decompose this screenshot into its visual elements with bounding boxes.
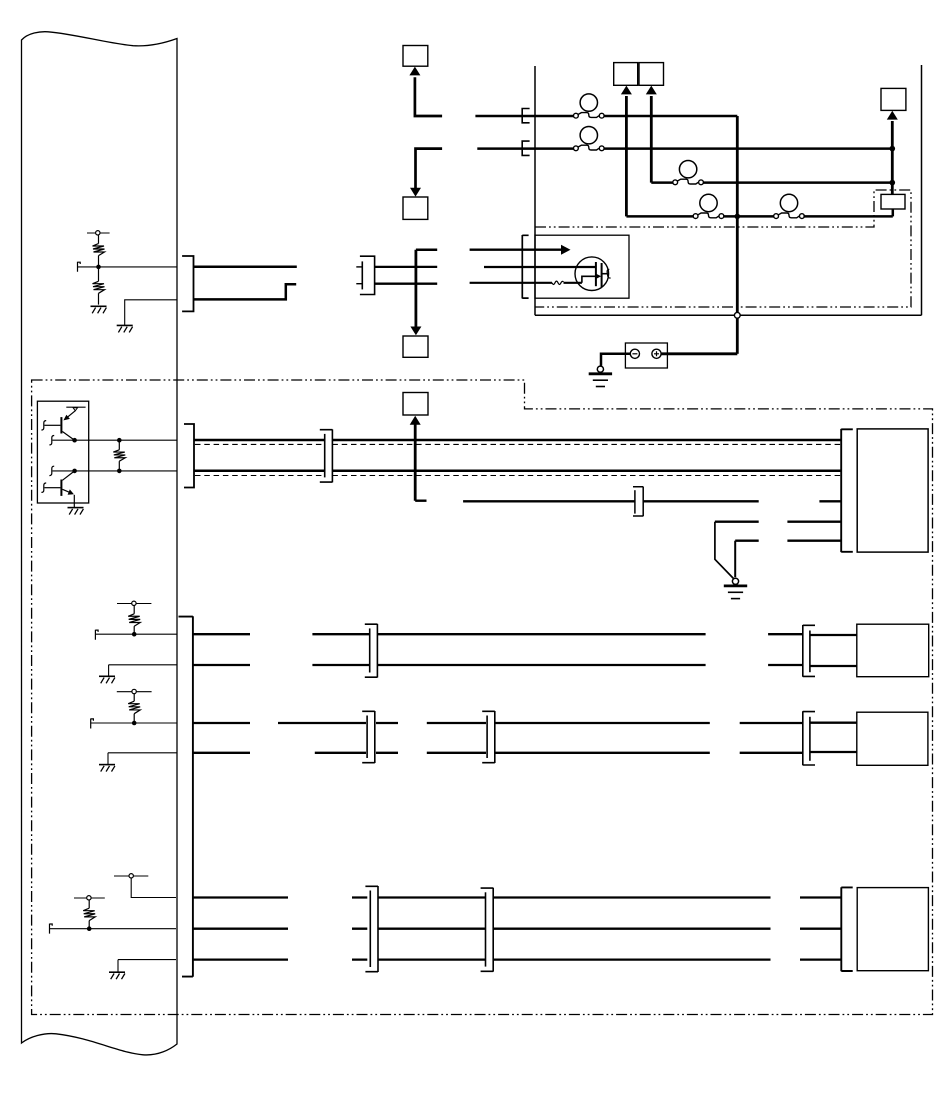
terminal fuse row2: [522, 141, 529, 155]
box B11 (actuator): [857, 888, 928, 971]
node row4 junction: [735, 214, 741, 220]
ground G1: [91, 306, 107, 313]
wire stub C2 pin1: [356, 266, 362, 268]
wire signal B (stepped): [194, 284, 297, 299]
wire pair1 solid: [194, 439, 841, 442]
connector C13: [481, 888, 494, 972]
wire W4: [715, 521, 841, 523]
node R3 top: [117, 438, 122, 443]
wire out B: [52, 470, 177, 472]
terminal Q1 base: [41, 421, 46, 430]
node Q1 out: [72, 438, 77, 443]
ground G3: [68, 508, 84, 515]
connector C2 frame: [360, 256, 375, 294]
wire W3 seg1: [463, 500, 634, 502]
wire row1 return thin: [109, 665, 177, 676]
ECU body band (torn-edge): [22, 32, 178, 1055]
arrow into B5: [646, 86, 657, 95]
terminal row1 signal: [95, 630, 98, 640]
wire row1b tail: [810, 665, 857, 667]
box B1 (to other page): [403, 46, 428, 67]
wire out A: [52, 439, 177, 441]
solid state relay box: [535, 235, 629, 298]
fuse box outline: [535, 65, 922, 315]
wire B4 feed vertical: [625, 96, 628, 216]
wire B to junction: [375, 283, 438, 285]
wire row3b: [192, 928, 841, 930]
wire sensor ground: [125, 300, 177, 325]
arrow into B1: [409, 67, 420, 76]
wire B7 vertical: [414, 425, 417, 501]
wire row2b tail: [810, 751, 857, 753]
connector C11: [803, 711, 815, 765]
ground G6: [99, 765, 115, 772]
driver box: [37, 401, 88, 503]
transistor Q2 (NPN): [45, 471, 75, 496]
wire row2 right: [604, 147, 892, 150]
ground G4: [724, 578, 747, 598]
wire pair2 solid: [194, 470, 841, 473]
wire main feed vertical: [414, 250, 417, 327]
arrow relay feed: [561, 245, 571, 255]
connector C8: [803, 625, 815, 677]
transistor Q1 (PNP): [45, 407, 86, 440]
wire W3 seg3: [819, 500, 841, 502]
relay element K1: [881, 194, 905, 209]
connector C101 bracket: [182, 256, 193, 311]
fuse F5: [774, 194, 805, 218]
wire row3c: [192, 958, 841, 960]
wire feed resume: [470, 249, 523, 251]
wire row1a: [193, 633, 803, 635]
connector C102 bracket: [184, 424, 194, 488]
wire row4 mid: [724, 215, 775, 218]
wire battery positive: [661, 352, 737, 355]
wire B2 vertical: [416, 149, 443, 189]
wire row2a tail: [810, 722, 857, 724]
wire row4 left: [626, 215, 693, 218]
power terminal row3: [114, 874, 148, 878]
connector C4: [320, 429, 333, 482]
connector C14 bracket: [841, 887, 852, 971]
box B4: [614, 63, 638, 86]
fuse F1: [574, 94, 605, 118]
wire row2 left: [477, 147, 573, 150]
wire row2b: [193, 752, 803, 754]
wire row2 return thin: [108, 753, 177, 764]
squiggle source: [552, 281, 564, 284]
ground battery: [589, 366, 612, 386]
wire relay gate: [522, 266, 596, 268]
harness enclosure (dash-dot boundary): [32, 380, 933, 1015]
box B2 (to other page): [403, 197, 428, 219]
node divider junction: [96, 265, 101, 270]
resistor R4: [128, 606, 140, 635]
terminal Q2 base: [41, 483, 46, 492]
wire row1 drop vertical: [736, 116, 739, 312]
connector C6 bracket: [841, 429, 853, 552]
wire row3 right: [703, 181, 892, 184]
wire A to junction: [375, 266, 438, 268]
wire row3: [651, 181, 673, 184]
box B6: [881, 88, 906, 110]
wire row1 signal thin: [95, 633, 177, 635]
node R3 bottom: [117, 469, 122, 474]
fuse F4: [693, 194, 724, 218]
wire pair2 shield dashed: [195, 475, 841, 477]
wire signal A: [194, 266, 297, 269]
node R4: [132, 632, 137, 637]
box B8 (control unit): [857, 429, 928, 552]
arrow into B6: [887, 111, 898, 120]
wire B5 feed vertical: [650, 96, 653, 183]
wire source to Q3: [564, 282, 582, 284]
wire relay feed: [522, 248, 562, 250]
terminal row2 signal: [91, 719, 94, 729]
wire W5: [735, 540, 841, 542]
wire row1b: [193, 664, 803, 666]
connector C9: [362, 711, 375, 763]
wire row1a tail: [810, 634, 857, 636]
wire row3 signal thin: [50, 928, 177, 930]
wire row2a: [193, 722, 803, 724]
wire row1 right: [604, 115, 737, 118]
power terminal circle V1: [87, 231, 110, 235]
wire row3a: [192, 896, 841, 898]
connector C5: [633, 487, 643, 517]
node row3/B6: [890, 180, 896, 186]
box B9 (sensor): [857, 624, 929, 677]
wire W3 seg2: [643, 500, 759, 502]
node box-exit grommet: [734, 312, 740, 318]
wire B6 feed vertical: [891, 121, 894, 194]
wire divider output: [78, 266, 178, 268]
resistor R6: [83, 900, 95, 929]
node R5: [132, 721, 137, 726]
wire stub C2 pin2: [356, 283, 362, 285]
wire battery drop: [736, 318, 739, 354]
fuse F3: [673, 161, 704, 185]
battery BAT1: [625, 343, 667, 368]
resistor R5: [128, 694, 140, 723]
box B10 (sensor): [857, 712, 928, 765]
pull-up terminal row3b: [74, 896, 105, 900]
wire pair1 shield dashed: [195, 443, 841, 445]
terminal out B: [49, 466, 54, 475]
arrow into B3: [410, 327, 421, 336]
ground G5: [99, 676, 115, 683]
wire Q2 emitter: [73, 495, 75, 508]
terminal out A: [49, 436, 54, 445]
terminal T1: [78, 262, 81, 272]
connector C10: [482, 711, 495, 763]
box B3 (to other page): [403, 336, 428, 357]
wire row1 left: [475, 115, 573, 118]
arrow from B7: [410, 416, 421, 425]
wire K1 to bus: [892, 209, 895, 216]
resistor R1: [93, 235, 105, 267]
wire W4 drop: [715, 522, 734, 579]
ground G7: [109, 972, 125, 979]
arrow into B2: [410, 188, 421, 197]
pull-up terminal row2: [117, 689, 152, 693]
wire W5 drop: [734, 541, 736, 578]
fuse F2: [574, 127, 605, 151]
wire battery negative: [601, 354, 630, 366]
terminal row3 signal: [50, 924, 53, 934]
box B7 (to other page): [403, 393, 428, 416]
wire row4 right: [803, 215, 892, 218]
ground G2: [117, 325, 133, 332]
wire row3 return thin: [118, 960, 176, 972]
box B5: [639, 63, 664, 86]
node row2/B6: [890, 146, 896, 152]
resistor R2: [93, 267, 105, 305]
arrow into B4: [621, 86, 632, 95]
wire B1 vertical: [415, 77, 442, 116]
wire gate resume: [484, 266, 522, 268]
wire row2 signal thin: [91, 722, 177, 724]
relay enclosure dash-dot: [535, 190, 911, 307]
connector C103 bracket: [179, 616, 193, 977]
connector C7: [365, 624, 378, 678]
terminal fuse row1: [522, 109, 529, 123]
connector C12: [365, 886, 378, 972]
connector C3 bracket: [522, 235, 528, 299]
resistor R3: [113, 440, 125, 471]
wire main feed corner: [416, 248, 437, 251]
wire row3 feed: [131, 878, 176, 898]
wire B7 foot: [415, 500, 426, 502]
node R6: [87, 926, 92, 931]
pull-up terminal row1: [117, 601, 151, 605]
wire relay source: [522, 282, 552, 284]
node Q2 collector: [72, 469, 77, 474]
wire source resume: [470, 282, 523, 284]
transistor Q3 (MOSFET): [575, 257, 611, 291]
